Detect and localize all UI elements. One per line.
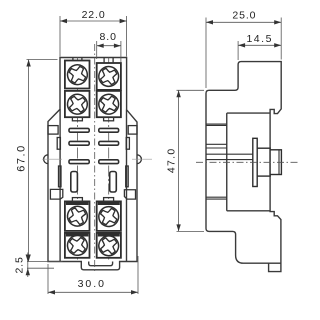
dim 2.5 extension lines	[27, 262, 63, 269]
right lower edge slot	[126, 166, 129, 187]
arrows 14.5	[238, 43, 245, 47]
right ear center line	[132, 158, 152, 160]
arrows 25.0	[206, 20, 213, 24]
screw box row3 left	[65, 201, 90, 231]
arrows 2.5 (outside)	[26, 255, 30, 262]
screw box row3 right	[97, 201, 121, 231]
screw terminal 6	[97, 205, 120, 228]
clamp tab below row2 right	[104, 117, 114, 121]
internal shelf top	[227, 112, 270, 114]
terminal screw head	[270, 150, 281, 175]
screw head face line	[278, 150, 280, 175]
dim 67.0 line	[28, 60, 30, 262]
centerline left screw column	[76, 58, 78, 260]
rib pair upper	[206, 144, 227, 148]
internal vertical wall	[226, 113, 228, 211]
terminal screw body	[257, 148, 270, 176]
screw box row4 right	[97, 233, 121, 258]
svg-text:22.0: 22.0	[82, 9, 106, 21]
clamp bar row3 right	[98, 202, 120, 205]
clamp bar row3 left	[66, 202, 88, 205]
dim 14.5 extension line	[237, 41, 239, 60]
screw terminal 3	[66, 93, 88, 115]
centerline vertical middle	[94, 44, 96, 273]
clamp tab above row3 right	[104, 198, 114, 202]
centerline right screw column	[108, 58, 110, 260]
left lower edge slot	[59, 166, 62, 187]
pin slot row B right	[99, 141, 119, 145]
svg-text:8.0: 8.0	[100, 31, 117, 43]
clamp tab below row2 left	[72, 117, 82, 121]
internal shelf bottom	[227, 210, 270, 212]
screw box row4 left	[65, 233, 90, 258]
pin slot row B left	[69, 141, 89, 145]
dim 25.0 line	[206, 21, 281, 23]
clamp bar row4 left	[66, 233, 88, 236]
pin slot row C right	[99, 160, 119, 164]
arrows 47.0	[176, 90, 180, 97]
right ear boss	[137, 155, 141, 164]
dim 22.0 extension lines	[60, 16, 127, 57]
svg-text:14.5: 14.5	[246, 33, 272, 45]
clamp tab above row3 left	[72, 198, 82, 202]
dim 30.0 line	[48, 291, 138, 293]
pin slot row A left	[69, 128, 89, 132]
arrows 67.0	[26, 60, 30, 67]
dim 25.0 extension lines	[206, 18, 281, 89]
front view body outline	[48, 58, 137, 270]
dim 14.5 line	[238, 44, 281, 46]
left ear boss	[44, 155, 48, 164]
svg-text:67.0: 67.0	[15, 144, 27, 171]
pin slot row C left	[69, 160, 89, 164]
screw terminal 1	[65, 63, 89, 87]
dim 8.0 line	[97, 45, 121, 47]
clamp bar row4 right	[98, 233, 120, 236]
rib pair lower	[206, 197, 227, 199]
left edge slot	[57, 138, 60, 150]
svg-text:2.5: 2.5	[13, 256, 25, 273]
screw box row2 left	[65, 91, 90, 117]
screw box row2 right	[97, 91, 121, 117]
arrows 22.0	[60, 19, 67, 23]
left inner wall	[59, 109, 61, 261]
bottom tab inner cutout	[89, 262, 113, 266]
right wing mounting notch	[128, 126, 137, 135]
arrows 8.0	[97, 44, 104, 48]
dim 8.0 extension lines	[97, 41, 121, 62]
arrows 30.0	[48, 290, 55, 294]
screw box row1 left	[65, 61, 90, 89]
screw box row1 right	[97, 63, 121, 90]
svg-text:25.0: 25.0	[232, 9, 256, 21]
left ear center line	[42, 158, 62, 160]
screw terminal 4	[97, 93, 120, 116]
vertical pin slot right	[110, 172, 117, 193]
dim 67.0 extension line top	[27, 59, 58, 61]
svg-text:47.0: 47.0	[165, 147, 177, 173]
dim 47.0 extension lines	[177, 90, 205, 231]
dim 47.0 line	[178, 90, 180, 231]
dim 22.0 line	[60, 20, 127, 22]
dim 2.5 line	[27, 253, 29, 278]
left lower block	[50, 189, 62, 199]
terminal pin bar	[206, 154, 253, 159]
clamp tab top left	[73, 58, 82, 61]
screw terminal 7	[66, 234, 88, 256]
svg-text:30.0: 30.0	[78, 278, 106, 290]
side view body outline	[206, 62, 281, 272]
right edge slot	[126, 138, 129, 150]
terminal clamp plate	[253, 138, 257, 186]
rib pair top	[206, 124, 227, 125]
right lower block	[124, 190, 135, 199]
screw terminal 5	[65, 204, 89, 228]
pin slot row A right	[99, 128, 119, 132]
vertical pin slot left	[71, 172, 78, 193]
screw terminal 8	[97, 234, 120, 257]
side view centerline	[196, 161, 298, 163]
foot top line	[269, 262, 281, 264]
dim 30.0 extension lines	[48, 256, 138, 294]
screw terminal 2	[97, 65, 120, 88]
left wing mounting notch	[48, 126, 58, 135]
right inner wall	[126, 110, 128, 262]
clamp tab top right	[104, 58, 113, 64]
